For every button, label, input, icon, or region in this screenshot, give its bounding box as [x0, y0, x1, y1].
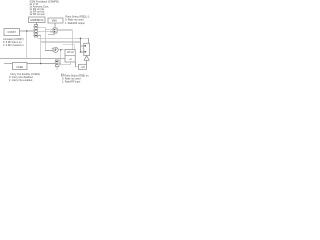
- RSEL text block: [65, 16, 90, 25]
- svg-text:CP G2: CP G2: [67, 52, 75, 54]
- wire: [45, 29, 53, 31]
- svg-text:1: Carry Out enabled: 1: Carry Out enabled: [9, 79, 33, 82]
- node A: [26, 30, 28, 32]
- node B: [40, 63, 42, 65]
- svg-text:1: Ratio/RF output: 1: Ratio/RF output: [65, 22, 85, 25]
- wire: [80, 38, 82, 52]
- svg-text:VMA: VMA: [52, 20, 58, 23]
- buffer Q1: [84, 56, 89, 61]
- wire: [58, 49, 65, 51]
- wire: [38, 27, 53, 50]
- wire: [81, 51, 84, 53]
- svg-text:1: 0 RF invested in.: 1: 0 RF invested in.: [3, 44, 24, 47]
- wire: [0, 58, 65, 60]
- svg-text:CONST: CONST: [8, 31, 17, 34]
- wire: [38, 36, 41, 64]
- svg-text:COEN: COEN: [16, 66, 23, 69]
- wire: [38, 38, 89, 43]
- flip-flop U6: [84, 43, 90, 55]
- wire: [26, 31, 28, 59]
- wire: [61, 50, 71, 65]
- COEN text block: [9, 72, 40, 82]
- mixer U3: [52, 47, 59, 52]
- wire: [27, 63, 55, 65]
- svg-text:1: Ratio/RF input: 1: Ratio/RF input: [62, 80, 81, 83]
- node D: [60, 49, 62, 51]
- wire: [20, 30, 35, 32]
- wire: [4, 63, 13, 65]
- svg-text:CO: CO: [81, 66, 85, 69]
- register COEN: [13, 63, 28, 70]
- top text block GSMFB description: [30, 0, 59, 16]
- node junction dots: [26, 30, 81, 64]
- node E: [80, 38, 82, 40]
- output pad CO: [79, 64, 87, 69]
- wire: [41, 41, 81, 43]
- wire: [81, 45, 84, 47]
- gate U2: [48, 28, 57, 35]
- register GSMFB: [29, 17, 46, 23]
- comparator column U1: [33, 25, 38, 37]
- wire: [86, 60, 88, 64]
- wire: [36, 23, 38, 25]
- wire: [63, 45, 74, 50]
- node F: [80, 51, 82, 53]
- svg-text:GSMFB[6:0]: GSMFB[6:0]: [30, 19, 43, 22]
- wire: [76, 62, 79, 67]
- wire: [38, 31, 53, 33]
- svg-text:1x RF on aux: 1x RF on aux: [30, 12, 46, 16]
- wire: [54, 23, 56, 28]
- CONST text block: [3, 38, 24, 47]
- register CONST: [4, 29, 20, 36]
- divider U5: [65, 50, 75, 63]
- wire: [57, 30, 72, 49]
- RSB text block: [61, 74, 89, 83]
- register VMAX: [48, 18, 63, 23]
- gate U4: [55, 60, 61, 70]
